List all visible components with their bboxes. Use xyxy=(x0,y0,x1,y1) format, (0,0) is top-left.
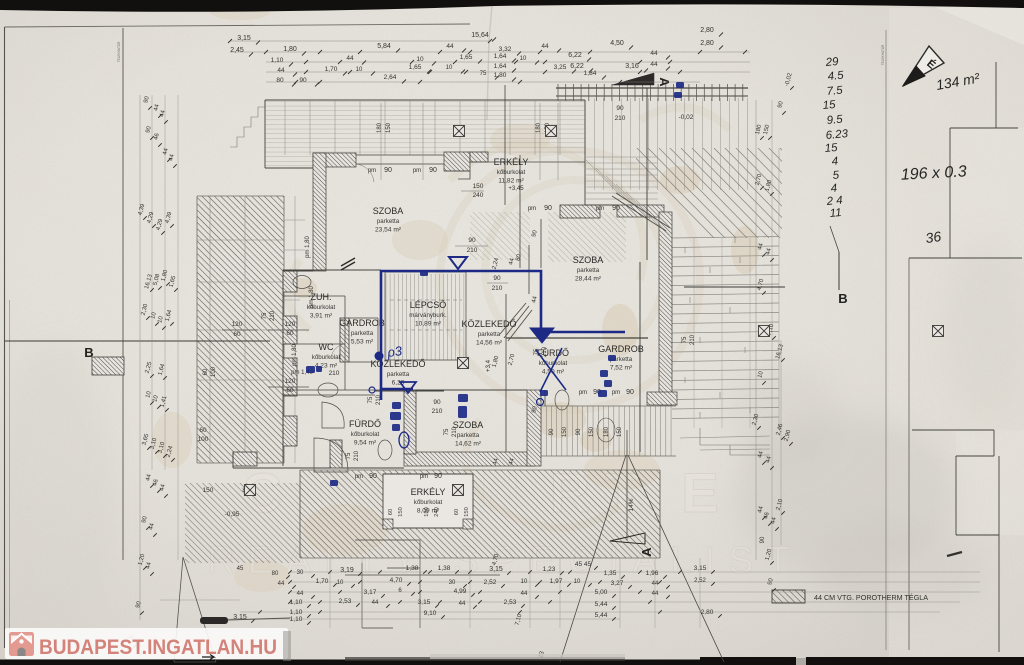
logo house icon xyxy=(9,632,34,656)
svg-text:180: 180 xyxy=(604,426,610,437)
B right xyxy=(838,252,840,290)
svg-text:9,54 m²: 9,54 m² xyxy=(354,440,377,447)
wall bottom szoba xyxy=(404,452,534,466)
svg-text:TELEKHATÁR: TELEKHATÁR xyxy=(881,44,885,65)
V slope lines xyxy=(560,455,626,662)
svg-text:15: 15 xyxy=(824,142,838,155)
svg-text:1,64: 1,64 xyxy=(494,63,507,70)
svg-text:2,52: 2,52 xyxy=(484,579,497,586)
svg-text:1,80: 1,80 xyxy=(494,72,507,79)
svg-text:1,84: 1,84 xyxy=(584,70,597,77)
svg-text:210: 210 xyxy=(354,450,360,461)
svg-text:2,45: 2,45 xyxy=(230,47,244,54)
svg-text:1,70: 1,70 xyxy=(325,66,338,73)
svg-text:44 CM VTG. POROTHERM TÉGLA: 44 CM VTG. POROTHERM TÉGLA xyxy=(814,593,928,602)
bottom roof hatch xyxy=(300,470,660,558)
top balcony deck hatch xyxy=(588,98,748,190)
svg-text:90: 90 xyxy=(544,205,552,212)
blue fixtures xyxy=(392,402,401,409)
svg-text:3,15: 3,15 xyxy=(694,565,707,572)
svg-text:75: 75 xyxy=(682,336,688,343)
wall szoba top-left L xyxy=(313,153,356,167)
wall right szoba top xyxy=(617,205,664,217)
wall balcony piers xyxy=(470,152,488,162)
wall left of B line xyxy=(92,357,124,375)
svg-text:60: 60 xyxy=(286,387,294,394)
svg-text:WC: WC xyxy=(319,342,334,352)
svg-text:15: 15 xyxy=(822,99,836,112)
top dim lines xyxy=(230,40,490,42)
svg-text:210: 210 xyxy=(492,285,503,292)
svg-text:44: 44 xyxy=(652,581,659,587)
svg-text:120: 120 xyxy=(285,378,296,385)
svg-text:pm: pm xyxy=(528,206,536,212)
svg-text:240: 240 xyxy=(434,507,440,517)
svg-text:ERKÉLY: ERKÉLY xyxy=(494,157,529,167)
svg-text:6,22: 6,22 xyxy=(570,63,584,70)
watermark floral stains xyxy=(287,107,730,528)
svg-text:parketta: parketta xyxy=(577,267,600,274)
svg-text:márványburk.: márványburk. xyxy=(409,312,447,319)
svg-text:180: 180 xyxy=(536,122,542,133)
svg-text:3,16: 3,16 xyxy=(625,63,639,70)
svg-text:1,10: 1,10 xyxy=(271,57,284,64)
blue dot xyxy=(375,352,384,361)
svg-text:210: 210 xyxy=(270,310,276,321)
svg-text:29: 29 xyxy=(824,56,839,69)
legend swatch xyxy=(772,590,805,603)
svg-text:80: 80 xyxy=(276,77,284,84)
svg-text:TELEKHATÁR: TELEKHATÁR xyxy=(117,41,121,62)
svg-text:7,52 m²: 7,52 m² xyxy=(610,365,633,372)
top black bar xyxy=(0,0,1024,12)
svg-text:90: 90 xyxy=(576,428,582,435)
svg-text:parketta: parketta xyxy=(478,331,501,338)
handwritten dash xyxy=(947,552,962,556)
svg-text:4: 4 xyxy=(831,155,838,168)
svg-text:60: 60 xyxy=(203,368,209,375)
svg-text:44: 44 xyxy=(297,591,304,597)
arrow under logo xyxy=(202,655,214,660)
svg-text:44: 44 xyxy=(650,50,658,57)
svg-text:GARDROB: GARDROB xyxy=(339,318,385,328)
door arcs xyxy=(356,164,374,182)
svg-text:6.23: 6.23 xyxy=(825,128,849,142)
svg-text:45: 45 xyxy=(237,566,244,572)
step outlines right of terrace xyxy=(284,196,305,463)
building outlines xyxy=(265,100,313,168)
svg-text:90: 90 xyxy=(299,77,307,84)
wall szoba top-right xyxy=(444,152,470,171)
svg-text:44: 44 xyxy=(541,43,549,50)
svg-text:pm: pm xyxy=(596,206,604,212)
svg-text:75: 75 xyxy=(480,71,487,77)
svg-text:44: 44 xyxy=(459,601,466,607)
svg-text:150: 150 xyxy=(464,507,470,517)
svg-text:30: 30 xyxy=(297,570,304,576)
svg-text:2,52: 2,52 xyxy=(694,578,706,584)
svg-text:ρ3: ρ3 xyxy=(385,343,403,360)
svg-text:1,23: 1,23 xyxy=(543,566,556,573)
svg-text:kőburkolat: kőburkolat xyxy=(312,354,341,361)
bottom black bar xyxy=(0,660,1024,665)
svg-text:196 x 0.3: 196 x 0.3 xyxy=(900,163,967,183)
svg-text:90: 90 xyxy=(429,167,437,174)
svg-text:10: 10 xyxy=(356,67,363,73)
svg-text:B: B xyxy=(838,291,847,306)
hatch right of stairs xyxy=(470,212,530,260)
svg-text:210: 210 xyxy=(690,334,696,345)
svg-text:3,15: 3,15 xyxy=(237,35,251,42)
svg-text:10: 10 xyxy=(520,56,527,62)
arrow mid-left of A bottom xyxy=(345,574,500,576)
svg-text:4,70: 4,70 xyxy=(390,577,403,584)
svg-text:1,10: 1,10 xyxy=(290,616,303,623)
blue triangle bottom xyxy=(400,382,416,393)
svg-text:44: 44 xyxy=(652,591,659,597)
svg-text:90: 90 xyxy=(626,389,634,396)
svg-text:180: 180 xyxy=(424,507,430,517)
fixtures xyxy=(293,276,311,289)
svg-text:90: 90 xyxy=(384,167,392,174)
svg-text:ERKÉLY: ERKÉLY xyxy=(411,487,446,497)
svg-text:4,50: 4,50 xyxy=(610,40,624,47)
svg-text:1,65: 1,65 xyxy=(409,64,422,71)
svg-text:SZOBA: SZOBA xyxy=(573,255,604,265)
svg-text:36: 36 xyxy=(924,228,942,246)
stepped corner top-left xyxy=(230,100,265,147)
svg-text:4: 4 xyxy=(830,182,837,195)
svg-text:1,10: 1,10 xyxy=(290,609,303,616)
svg-text:3,19: 3,19 xyxy=(340,567,354,574)
svg-text:210: 210 xyxy=(615,115,626,122)
svg-text:210: 210 xyxy=(329,370,340,377)
svg-text:3,32: 3,32 xyxy=(499,46,512,53)
svg-text:4.5: 4.5 xyxy=(827,70,845,83)
svg-text:44: 44 xyxy=(372,600,379,606)
svg-text:120: 120 xyxy=(232,321,243,328)
svg-text:44: 44 xyxy=(278,581,285,587)
property line left xyxy=(122,28,124,560)
svg-text:28,44 m²: 28,44 m² xyxy=(575,276,602,283)
svg-text:ZUH.: ZUH. xyxy=(311,292,332,302)
svg-text:1,70: 1,70 xyxy=(316,578,329,585)
svg-text:150: 150 xyxy=(398,507,404,517)
svg-text:10: 10 xyxy=(416,56,424,63)
svg-text:-0,02: -0,02 xyxy=(679,114,694,121)
svg-text:BUDAPEST.INGATLAN.HU: BUDAPEST.INGATLAN.HU xyxy=(39,636,277,659)
svg-text:44: 44 xyxy=(346,55,354,62)
roof steps bottom right xyxy=(700,428,770,455)
wall fürdő bottom xyxy=(330,440,342,468)
stripe band bottom right xyxy=(541,406,676,456)
svg-text:2,53: 2,53 xyxy=(339,598,352,605)
balcony railing xyxy=(556,87,748,89)
svg-text:90: 90 xyxy=(760,536,766,543)
svg-text:75: 75 xyxy=(262,312,268,319)
svg-text:90: 90 xyxy=(433,399,441,406)
svg-text:44: 44 xyxy=(650,61,658,68)
svg-text:100: 100 xyxy=(198,436,209,443)
4,70 line right xyxy=(684,286,785,288)
svg-text:GARDROB: GARDROB xyxy=(598,344,644,354)
svg-text:210: 210 xyxy=(467,247,478,254)
bottom connector verticals xyxy=(329,558,331,628)
svg-text:90: 90 xyxy=(612,205,620,212)
svg-text:parketta: parketta xyxy=(457,432,480,439)
ramp top right treads xyxy=(586,160,620,195)
svg-text:75: 75 xyxy=(444,428,450,435)
svg-text:2,80: 2,80 xyxy=(700,27,714,34)
svg-text:44: 44 xyxy=(521,591,528,597)
winder ramp diagonals xyxy=(500,303,532,341)
svg-text:60: 60 xyxy=(454,509,460,515)
A top marker xyxy=(612,73,654,85)
svg-text:100: 100 xyxy=(211,366,217,377)
svg-text:5,44: 5,44 xyxy=(595,612,608,619)
svg-text:5,00: 5,00 xyxy=(595,589,608,596)
svg-text:KÖZLEKEDŐ: KÖZLEKEDŐ xyxy=(461,319,516,329)
svg-text:9.5: 9.5 xyxy=(826,114,844,127)
svg-text:210: 210 xyxy=(432,408,443,415)
X boxes xyxy=(454,126,465,137)
B left xyxy=(5,340,270,342)
svg-text:pm 1,80: pm 1,80 xyxy=(292,344,298,366)
svg-text:2,80: 2,80 xyxy=(700,40,714,47)
svg-text:kőburkolat: kőburkolat xyxy=(497,169,526,176)
svg-text:parketta: parketta xyxy=(387,371,410,378)
sheet border left xyxy=(4,27,6,648)
svg-text:150: 150 xyxy=(473,183,484,190)
svg-text:KÖZLEKEDŐ: KÖZLEKEDŐ xyxy=(370,359,425,369)
erkely 8.09 interior xyxy=(383,474,473,528)
blue main polyline xyxy=(381,271,625,400)
svg-text:-0,95: -0,95 xyxy=(225,511,240,518)
svg-text:A: A xyxy=(639,547,654,557)
blue triangle right xyxy=(530,328,554,343)
svg-text:90: 90 xyxy=(434,473,442,480)
svg-text:+3,4: +3,4 xyxy=(486,359,492,372)
section line A xyxy=(646,88,648,260)
svg-text:90: 90 xyxy=(549,428,555,435)
svg-text:80: 80 xyxy=(272,571,279,577)
svg-text:3,17: 3,17 xyxy=(364,589,377,596)
svg-text:pm: pm xyxy=(420,474,428,480)
svg-text:1,38: 1,38 xyxy=(438,565,451,572)
wall left piers xyxy=(283,316,297,344)
svg-text:150: 150 xyxy=(562,426,568,437)
svg-text:7.5: 7.5 xyxy=(826,85,844,98)
svg-text:SZOBA: SZOBA xyxy=(453,420,484,430)
svg-text:kőburkolat: kőburkolat xyxy=(307,304,336,311)
svg-text:75: 75 xyxy=(346,452,352,459)
svg-text:B: B xyxy=(84,345,93,360)
svg-text:15,64: 15,64 xyxy=(471,32,489,39)
svg-text:A: A xyxy=(657,77,672,87)
svg-text:180: 180 xyxy=(377,122,383,133)
svg-text:1,97: 1,97 xyxy=(550,578,563,585)
svg-text:120: 120 xyxy=(285,321,296,328)
hatch above corridor xyxy=(548,212,626,262)
svg-text:kőburkolat: kőburkolat xyxy=(414,499,443,506)
svg-text:60: 60 xyxy=(388,509,394,515)
svg-text:4,99: 4,99 xyxy=(454,588,467,595)
svg-text:1,65: 1,65 xyxy=(460,54,473,61)
svg-text:LÉPCSŐ: LÉPCSŐ xyxy=(410,300,447,310)
svg-text:60: 60 xyxy=(199,427,207,434)
svg-text:pm: pm xyxy=(612,390,620,396)
svg-text:1,64: 1,64 xyxy=(494,53,507,60)
watermark letters row1 xyxy=(242,461,719,524)
svg-text:10: 10 xyxy=(521,579,528,585)
A bottom marker xyxy=(610,533,645,544)
svg-text:5,84: 5,84 xyxy=(377,43,391,50)
svg-text:14%: 14% xyxy=(628,498,635,511)
dark fragment above logo xyxy=(200,617,228,624)
blue triangle top xyxy=(449,257,467,269)
svg-text:60: 60 xyxy=(233,331,241,338)
left terrace hatch xyxy=(197,196,284,463)
svg-text:SZOBA: SZOBA xyxy=(373,206,404,216)
svg-text:90: 90 xyxy=(369,473,377,480)
wall right main vertical xyxy=(659,212,672,405)
left dim columns xyxy=(139,95,141,620)
svg-text:60: 60 xyxy=(286,330,294,337)
svg-text:10,89 m²: 10,89 m² xyxy=(415,321,442,328)
right dim columns xyxy=(755,100,757,560)
svg-text:parketta: parketta xyxy=(377,218,400,225)
svg-text:1,35: 1,35 xyxy=(604,570,617,577)
svg-text:6,22: 6,22 xyxy=(568,52,582,59)
svg-text:90: 90 xyxy=(616,105,624,112)
svg-text:pm: pm xyxy=(355,474,363,480)
svg-text:45 45: 45 45 xyxy=(575,561,592,568)
svg-text:kőburkolat: kőburkolat xyxy=(351,431,380,438)
svg-text:pm: pm xyxy=(413,168,421,174)
svg-text:2,53: 2,53 xyxy=(504,599,517,606)
svg-text:44: 44 xyxy=(277,67,285,74)
svg-text:pm 1,80: pm 1,80 xyxy=(305,236,311,258)
svg-text:150: 150 xyxy=(386,122,392,133)
svg-text:1,38: 1,38 xyxy=(406,565,419,572)
svg-text:150: 150 xyxy=(589,426,595,437)
right page lines xyxy=(995,62,997,128)
roof hatch top-left boards xyxy=(265,100,585,168)
property line right xyxy=(885,30,887,650)
svg-text:+3,45: +3,45 xyxy=(508,186,524,192)
svg-text:2,64: 2,64 xyxy=(384,74,397,81)
svg-text:11,82 m²: 11,82 m² xyxy=(498,178,524,185)
board ticks xyxy=(684,247,686,253)
svg-text:10: 10 xyxy=(337,580,344,586)
svg-text:1,10: 1,10 xyxy=(290,599,303,606)
bottom dim rows xyxy=(290,571,980,573)
bottom-left gable triangle xyxy=(174,557,216,662)
svg-text:2,80: 2,80 xyxy=(701,609,714,616)
svg-text:75: 75 xyxy=(368,396,374,403)
svg-text:5,44: 5,44 xyxy=(595,601,608,608)
svg-text:44: 44 xyxy=(446,43,454,50)
wall right foot xyxy=(647,392,677,405)
svg-text:3,27: 3,27 xyxy=(611,580,624,587)
svg-text:1,80: 1,80 xyxy=(283,46,297,53)
svg-text:150: 150 xyxy=(617,426,623,437)
svg-text:14,62 m²: 14,62 m² xyxy=(455,441,482,448)
svg-text:3,15: 3,15 xyxy=(489,566,503,573)
svg-text:150: 150 xyxy=(203,487,214,494)
svg-text:30: 30 xyxy=(449,580,456,586)
svg-text:1,96: 1,96 xyxy=(646,570,659,577)
svg-text:11: 11 xyxy=(829,207,842,220)
svg-text:parketta: parketta xyxy=(351,330,374,337)
svg-text:90: 90 xyxy=(468,237,476,244)
svg-text:pm: pm xyxy=(579,390,587,396)
svg-text:14,56 m²: 14,56 m² xyxy=(476,340,503,347)
svg-text:FÜRDŐ: FÜRDŐ xyxy=(349,419,381,429)
stairs lépcső fine treads xyxy=(385,274,387,360)
north arrow xyxy=(903,46,944,86)
svg-text:3,25: 3,25 xyxy=(554,64,567,71)
svg-text:E: E xyxy=(681,461,718,524)
svg-text:10: 10 xyxy=(574,579,581,585)
svg-text:3,91 m²: 3,91 m² xyxy=(310,313,333,320)
svg-text:10: 10 xyxy=(446,65,453,71)
logo bar xyxy=(5,628,288,659)
svg-text:9,10: 9,10 xyxy=(424,610,437,617)
svg-text:240: 240 xyxy=(473,192,484,199)
svg-text:23,54 m²: 23,54 m² xyxy=(375,227,402,234)
svg-text:90: 90 xyxy=(493,275,501,282)
blue X fürdő xyxy=(536,348,566,392)
svg-text:5,53 m²: 5,53 m² xyxy=(351,339,374,346)
svg-text:3,15: 3,15 xyxy=(418,599,431,606)
